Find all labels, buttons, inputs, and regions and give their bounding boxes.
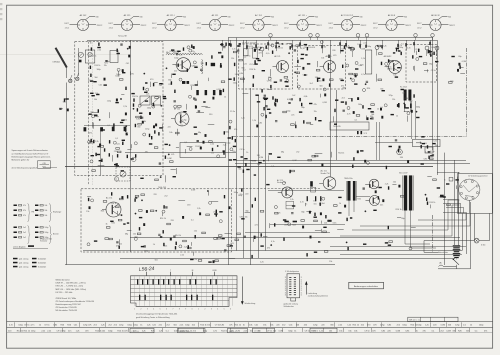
svg-text:6,8k: 6,8k [53,325,57,327]
wire socket nest 3 [360,214,470,226]
node [352,79,355,82]
svg-text:68p: 68p [168,79,171,81]
resistor R443 [275,99,276,102]
svg-text:Wellenbereiche: Wellenbereiche [56,278,71,281]
transistor pinout AF 102 [64,14,102,31]
resistor R275 [435,61,438,62]
second top bus wire [228,37,433,39]
resistor R461 [277,99,278,102]
resistor R355 [133,103,134,106]
wire [267,89,272,91]
svg-text:22n: 22n [321,325,324,327]
wire string [366,40,368,47]
capacitor C373 [212,97,214,100]
capacitor C389 [195,106,197,109]
wire [211,201,218,203]
wire [165,175,167,182]
node [143,133,146,136]
capacitor C382 [203,102,205,103]
resistor R213 [355,68,358,69]
resistor R105 [177,51,180,52]
node [323,88,326,91]
resistor R661 [163,205,164,208]
svg-text:1,2k: 1,2k [76,330,80,332]
svg-text:68p: 68p [242,67,245,69]
node [271,44,274,47]
pushbutton grid lines [131,276,238,306]
vertical bus x236 [236,38,238,251]
wire string [230,40,232,47]
wire [392,184,396,186]
resistor R816 [437,187,440,188]
resistor R859 [346,218,347,221]
svg-text:C41: C41 [402,93,405,95]
resistor R865 [389,241,393,243]
resistor R100 [171,49,174,50]
resistor string [230,44,231,47]
resistor R146 [276,42,279,43]
svg-text:10k: 10k [321,58,324,60]
resistor R420 [237,166,240,167]
voltages note [12,149,58,169]
node [229,120,232,123]
pushbutton contacts upper [137,279,217,284]
svg-text:1k: 1k [243,325,245,327]
svg-text:1,2k: 1,2k [271,166,275,168]
svg-text:R26: R26 [367,88,370,90]
resistor R39 [96,94,99,95]
svg-text:940: 940 [228,16,231,18]
wire [366,116,368,120]
svg-text:470: 470 [333,55,336,57]
node [189,95,192,98]
wire [397,217,401,219]
resistor R687 [202,232,206,234]
AM IF can capacitor 4 [124,127,127,132]
wire [321,229,323,233]
resistor R781 [301,220,305,222]
capacitor C825 [318,242,320,243]
svg-text:C9 5n: C9 5n [248,48,253,50]
svg-text:0: 0 [192,308,193,310]
resistor R763 [314,220,318,222]
resistor R854 [385,242,388,243]
resistor R671 [195,235,196,238]
svg-text:2,2k: 2,2k [210,144,214,146]
resistor R843 [188,245,189,248]
transistor T4 AF80 [385,61,402,74]
svg-text:2: 2 [140,308,141,310]
capacitor C284 [457,69,459,72]
wire mains bottom [438,258,471,269]
svg-text:10k: 10k [329,330,332,332]
svg-text:6 30v: 6 30v [481,245,485,247]
bottom bus y264 [65,264,335,266]
resistor R726 [283,219,286,220]
wire string [300,40,302,49]
wire [460,73,465,75]
svg-text:D8C7: D8C7 [196,23,201,25]
capacitor C783 [320,212,322,215]
resistor R269 [418,49,419,52]
svg-text:47k: 47k [229,325,232,327]
svg-text:2JC2: 2JC2 [65,28,69,30]
resistor R293 [121,120,124,121]
svg-text:125p: 125p [430,151,434,153]
svg-text:2,2k: 2,2k [47,330,51,332]
resistor R256 [390,60,394,62]
svg-text:15k: 15k [339,330,342,332]
wire [457,177,459,184]
resistor R818 [426,198,427,201]
capacitor C390 [197,141,199,142]
wire [130,71,132,75]
resistor R491 [334,109,335,112]
svg-text:4,7n: 4,7n [328,220,332,222]
svg-text:330: 330 [257,155,260,157]
resistor R316 [122,140,125,141]
resistor R137 [239,59,243,61]
svg-text:2n2: 2n2 [23,237,26,239]
svg-text:AF 102: AF 102 [80,14,88,17]
capacitor C2 [105,61,107,62]
resistor R322 [97,146,100,147]
mains switch [454,260,460,265]
resistor string [413,42,414,45]
resistor R77 [206,62,207,65]
resistor R216 [316,69,320,71]
svg-text:1k: 1k [293,45,295,47]
connector arrow [305,281,328,297]
resistor R154 [285,81,288,82]
circled terminal nodes under bus [260,47,264,51]
resistor R521 [382,90,385,91]
label box audio 2row [286,201,294,209]
svg-text:ZF/FM Kanal 10,7 MHz: ZF/FM Kanal 10,7 MHz [56,298,77,300]
svg-text:2n2: 2n2 [161,116,164,118]
wire [117,211,119,215]
wire [190,63,192,67]
node [113,141,116,144]
svg-text:330: 330 [332,50,335,52]
resistor R487 [345,101,346,104]
svg-text:R047: R047 [292,225,296,227]
svg-text:R14 1k: R14 1k [90,56,96,58]
node [162,210,165,213]
svg-text:5k6: 5k6 [322,203,325,205]
wire y224 [270,224,345,226]
parts list rule 1 [7,321,493,323]
svg-text:15k: 15k [133,233,136,235]
capacitor C500 [367,117,369,120]
svg-text:2,2k: 2,2k [180,325,184,327]
capacitor C824 [443,196,445,197]
resistor R270 [412,55,413,58]
resistor string [275,45,276,48]
svg-text:2n2: 2n2 [292,95,295,97]
wire socket nest 1 [340,205,460,236]
svg-text:4,7n: 4,7n [255,225,259,227]
resistor R133 [220,44,223,45]
resistor R123 [220,63,221,66]
svg-text:1,2k: 1,2k [290,199,294,201]
wire [337,229,344,231]
node [176,53,177,54]
svg-text:15k: 15k [392,99,395,101]
node [278,46,279,47]
svg-text:100p: 100p [174,57,178,59]
svg-text:5k6: 5k6 [319,81,322,83]
resistor R457 [267,109,270,110]
resistor R452 [295,125,296,128]
svg-text:ZF-Verst 7414-035: ZF-Verst 7414-035 [242,42,257,45]
svg-text:5k6: 5k6 [371,114,374,116]
svg-text:10k: 10k [169,132,172,134]
svg-text:470: 470 [187,204,190,206]
resistor R501 [356,115,360,117]
resistor R151 [304,44,307,45]
resistor R338 [140,116,141,119]
resistor R757 [252,204,253,207]
svg-text:C9 5n: C9 5n [24,325,29,327]
svg-text:940: 940 [140,16,143,18]
svg-text:2n2: 2n2 [296,152,299,154]
svg-text:E 0 5 1 k: E 0 5 1 k [312,331,318,333]
svg-text:470: 470 [145,151,148,153]
resistor R532 [422,143,425,144]
node [223,151,224,152]
wire lamp up [489,214,491,241]
bus x125-236 [125,152,236,154]
node [260,47,261,48]
node [169,144,170,145]
wire tuner input [78,48,80,76]
svg-text:220: 220 [124,119,127,121]
svg-text:0,5M: 0,5M [167,158,172,160]
svg-text:10k: 10k [435,145,438,147]
svg-text:C9 5n: C9 5n [44,325,49,327]
wire [306,211,312,213]
resistor R102 [174,90,175,93]
node [126,126,127,127]
node [90,160,93,163]
resistor R728 [283,238,284,241]
transistor T1 AF121 [172,58,190,72]
svg-text:ohne Gleichspannungsabfall: ohne Gleichspannungsabfall [12,167,38,169]
resistor R99 [211,55,212,58]
antenna terminal 1 [69,79,72,82]
svg-text:D8C7: D8C7 [284,23,289,25]
node [230,148,233,151]
resistor R633 [103,201,107,203]
svg-text:R26: R26 [357,199,360,201]
wire [294,66,301,68]
resistor R217 [349,73,353,75]
node [282,182,285,185]
box right mid [425,147,433,153]
resistor R342 [139,113,142,114]
capacitor C392 [205,134,207,137]
resistor R308 [90,141,94,143]
IF can T4 [365,50,372,74]
capacitor C652 [123,223,125,224]
capacitor C612 [364,160,366,163]
wire [295,121,297,126]
svg-text:1,2k: 1,2k [347,47,350,49]
svg-text:6,8k: 6,8k [258,123,262,125]
node [416,111,417,112]
svg-text:D8C7: D8C7 [152,23,157,25]
wire [460,67,464,69]
capacitor C163 [302,67,304,70]
resistor R580 [140,178,143,179]
svg-text:L 1 L 1 L: L 1 L 1 L [254,331,260,333]
svg-text:C9 5n: C9 5n [57,330,62,332]
resistor R535 [389,146,392,147]
resistor R91 [171,81,172,84]
resistor string [299,42,300,45]
IF transformer block [398,90,412,113]
capacitor C441 [269,112,271,113]
resistor R830 [324,251,328,253]
node [189,148,192,151]
node [320,41,323,44]
node [134,237,137,240]
resistor R276 [430,53,431,56]
resistor R740 [274,223,275,226]
pushbutton unit outline [131,276,238,307]
svg-text:2,2k: 2,2k [123,106,127,108]
speaker socket box [458,174,493,214]
resistor R410 [246,169,249,170]
wire [270,69,272,76]
svg-text:R14 1k: R14 1k [95,330,101,332]
vertical bus x437 [437,40,439,175]
wire [315,153,323,155]
svg-text:C9 5n: C9 5n [431,70,436,72]
svg-text:2n2: 2n2 [174,71,177,73]
resistor string [381,45,382,48]
capacitor C288 [458,63,460,66]
svg-text:1,2k: 1,2k [425,325,429,327]
vertical bus x444 [444,153,446,265]
svg-text:2JC2: 2JC2 [284,28,288,30]
svg-text:C9 5n: C9 5n [249,64,254,66]
svg-text:1k: 1k [39,325,41,327]
FM tuner dashed box [75,42,163,176]
node [88,140,91,143]
resistor R636 [111,192,112,195]
resistor string [405,43,406,46]
resistor R717 [163,230,164,233]
resistor R90 [191,45,192,48]
svg-text:10k: 10k [192,325,195,327]
capacitor C384 [174,101,176,102]
resistor R220 [317,79,318,82]
svg-text:0,5M: 0,5M [441,325,446,327]
node [425,194,426,195]
resistor R168 [253,75,254,78]
svg-text:C 1 L L L L: C 1 L L L L [132,331,140,333]
svg-text:4,7n: 4,7n [9,325,13,327]
svg-text:47k: 47k [89,132,92,134]
top bus wire [87,40,437,42]
resistor R339 [149,143,152,144]
resistor R354 [133,98,134,101]
svg-text:2n2: 2n2 [164,196,167,198]
svg-text:769/C2: 769/C2 [141,25,147,27]
resistor R700 [224,195,225,198]
svg-text:1,2k: 1,2k [159,330,163,332]
svg-text:68p: 68p [198,132,201,134]
wire mains vertical 2 [458,172,460,245]
scan crease line [0,54,128,56]
resistor R78 [195,84,198,85]
vertical bus x258 [258,95,260,258]
capacitor C638 [89,206,91,209]
capacitor C431 [275,121,277,122]
pilot lamp [474,238,479,243]
resistor R841 [251,255,252,258]
capacitor C588 [223,150,225,151]
resistor R388 [178,106,182,108]
node [179,245,182,248]
parts list sub-box 2 [228,328,248,332]
resistor R775 [325,215,326,218]
svg-text:2JC2: 2JC2 [240,28,244,30]
resistor R681 [141,194,145,196]
resistor R432 [299,98,300,101]
resistor R130 [225,43,226,46]
resistor R844 [306,253,307,256]
svg-text:330: 330 [137,126,140,128]
svg-text:C41: C41 [230,243,233,245]
capacitor C127 [228,43,230,46]
resistor R619 [312,155,316,157]
svg-text:68p: 68p [96,116,99,118]
resistor R555 [91,155,94,156]
wire [87,196,91,198]
svg-text:GW-246 7-c-s: GW-246 7-c-s [179,331,190,333]
resistor R780 [314,217,317,218]
resistor R178 [261,89,262,92]
capacitor C539 [395,140,397,141]
svg-text:R14 1k: R14 1k [175,235,181,237]
svg-text:0,1: 0,1 [184,142,187,144]
transistor pinout AF 121 [196,14,234,31]
resistor R538 [421,163,424,164]
resistor R311 [109,140,110,143]
svg-text:1k: 1k [246,152,248,154]
svg-text:1k: 1k [416,330,418,332]
resistor R250 [396,48,399,49]
svg-text:AF 121: AF 121 [274,55,280,58]
svg-text:0,5M: 0,5M [446,330,451,332]
svg-text:5k6: 5k6 [320,86,323,88]
capacitor audio bottom right [327,220,336,225]
resistor R529 [421,136,424,137]
wire [162,124,164,131]
svg-text:C9 5n: C9 5n [245,55,250,57]
ratio detector dashed box [406,45,437,83]
svg-text:47k: 47k [193,53,196,55]
resistor R253 [379,53,383,55]
svg-text:NF-Verstärker 7505-035: NF-Verstärker 7505-035 [56,309,78,312]
svg-text:ZF-Verstärker 7414-035: ZF-Verstärker 7414-035 [56,306,78,309]
resistor R823 [427,202,428,205]
svg-text:Schaltrichtung: Schaltrichtung [245,302,256,305]
IF module dashed box 1 [239,44,293,89]
